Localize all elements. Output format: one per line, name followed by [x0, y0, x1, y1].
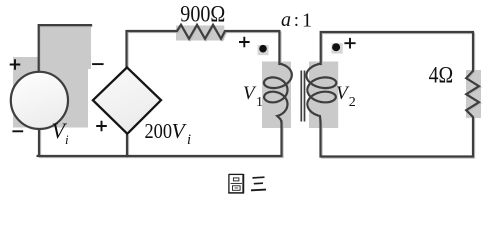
- svg-text::: :: [294, 10, 299, 31]
- svg-text:200: 200: [145, 119, 173, 143]
- svg-text:1: 1: [302, 10, 312, 32]
- svg-text:1: 1: [256, 95, 263, 110]
- svg-text:2: 2: [349, 95, 356, 110]
- svg-text:900Ω: 900Ω: [180, 2, 225, 27]
- svg-text:i: i: [187, 132, 191, 148]
- svg-text:V: V: [243, 83, 257, 104]
- svg-text:a: a: [281, 9, 291, 31]
- svg-text:V: V: [172, 119, 188, 143]
- svg-text:4Ω: 4Ω: [429, 62, 454, 87]
- svg-text:i: i: [65, 132, 69, 147]
